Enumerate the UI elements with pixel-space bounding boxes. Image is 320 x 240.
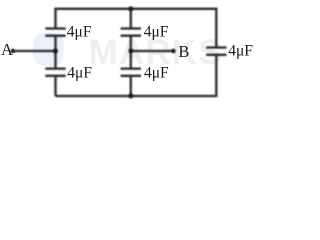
- wire: terminal A lead: [13, 50, 56, 52]
- svg-text:4μF: 4μF: [67, 65, 92, 82]
- wire: left branch mid segment: [54, 36, 56, 69]
- wire: terminal B lead: [131, 50, 174, 52]
- svg-text:4μF: 4μF: [67, 23, 92, 40]
- wire: bottom horizontal + right vertical lower: [56, 55, 217, 96]
- junction dot at A branch: [53, 49, 58, 54]
- wire: left vertical + top horizontal + right vertical upper: [56, 9, 217, 47]
- junction dot at B branch: [128, 49, 133, 54]
- wire: middle branch lower segment: [130, 76, 132, 96]
- wire: middle branch mid segment: [130, 36, 132, 69]
- wire: middle branch upper segment: [130, 9, 132, 29]
- capacitor C4 4uF (lower middle): [121, 67, 141, 69]
- svg-text:B: B: [178, 42, 189, 61]
- svg-text:4μF: 4μF: [144, 65, 169, 82]
- junction dot top of middle branch: [128, 6, 133, 11]
- node B terminal dot: [171, 49, 175, 53]
- capacitor C5 4uF (right): [206, 46, 226, 48]
- capacitor C3 4uF (upper middle): [121, 27, 141, 29]
- junction dot bottom of middle branch: [128, 94, 133, 99]
- svg-text:4μF: 4μF: [144, 23, 169, 40]
- capacitor C2 4uF (lower left): [45, 67, 65, 69]
- watermark logo blob: [33, 33, 64, 67]
- wire: left branch lower segment: [54, 76, 56, 96]
- capacitor C1 4uF (upper left): [45, 27, 65, 29]
- svg-text:4μF: 4μF: [228, 43, 253, 60]
- svg-text:A: A: [1, 40, 13, 59]
- node A terminal dot: [11, 49, 15, 53]
